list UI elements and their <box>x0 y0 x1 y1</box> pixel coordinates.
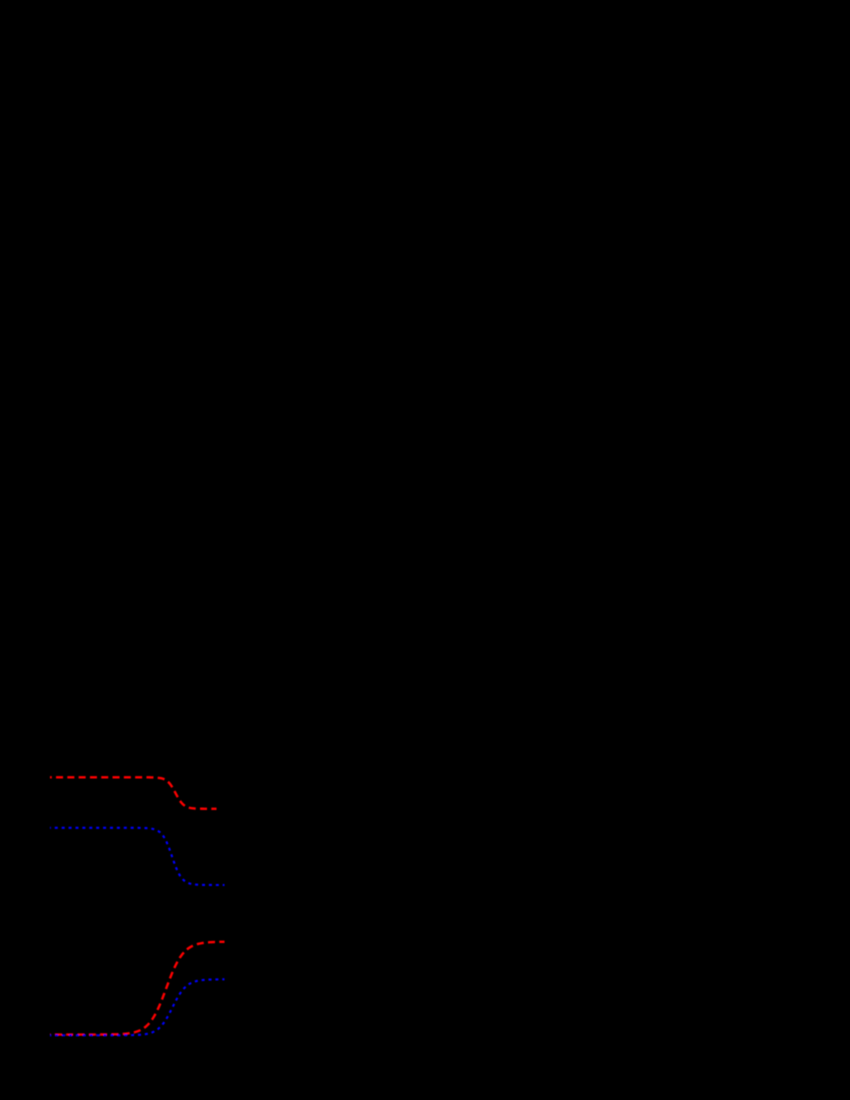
curve blue-bottom (dotted, ascending sigmoid) <box>50 979 225 1035</box>
curve red-bottom (dashed, ascending sigmoid) <box>50 942 225 1035</box>
curve blue-top (dotted, descending sigmoid) <box>50 828 225 885</box>
curve red-top (dashed, descending step) <box>50 777 217 809</box>
